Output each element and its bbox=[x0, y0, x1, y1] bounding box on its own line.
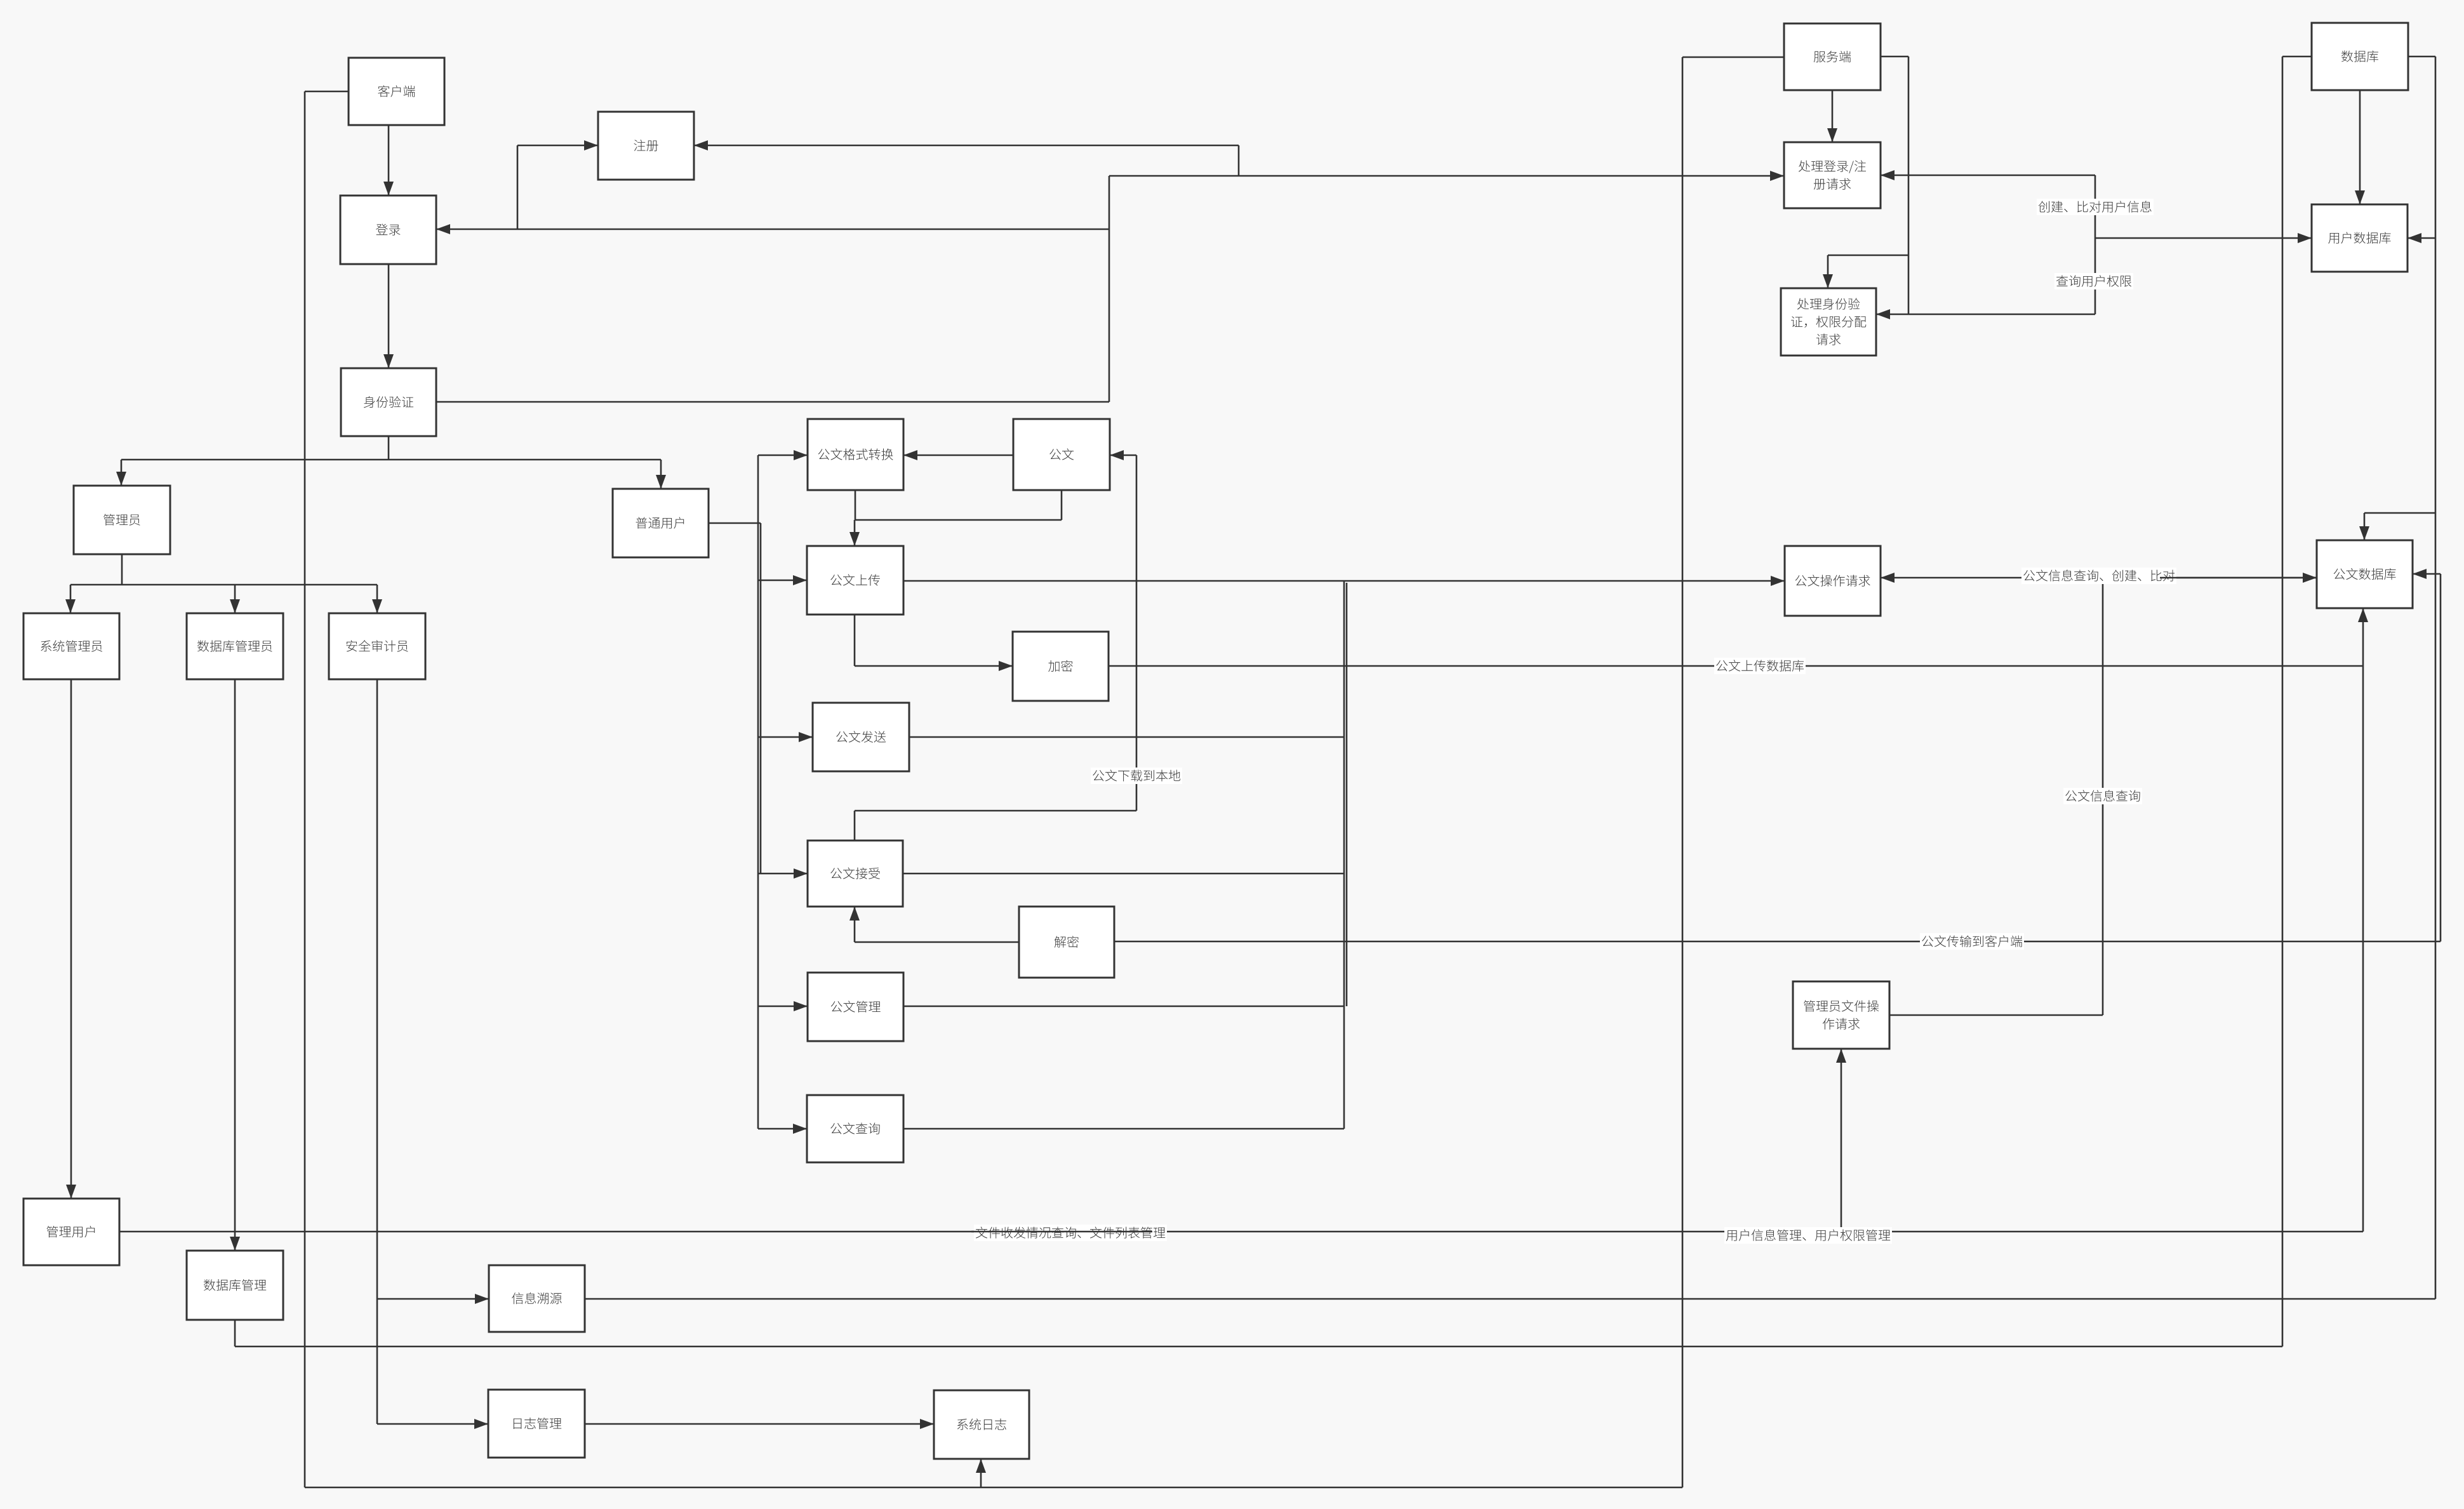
wire bbox=[1881, 577, 2317, 579]
wire bbox=[585, 1298, 2435, 1300]
wire bbox=[903, 580, 1785, 582]
wire bbox=[388, 264, 390, 368]
wire bbox=[758, 1006, 808, 1007]
wire bbox=[709, 522, 761, 524]
wire bbox=[903, 873, 1344, 875]
wire bbox=[517, 145, 598, 147]
wire bbox=[903, 1006, 1344, 1007]
wire bbox=[757, 455, 759, 1129]
node 加密 bbox=[1013, 632, 1109, 701]
node 处理身份验证，权限分配请求 bbox=[1781, 288, 1876, 356]
wire bbox=[517, 145, 519, 229]
label 创建、比对用户信息 bbox=[2037, 199, 2154, 215]
node 管理员 bbox=[74, 486, 170, 554]
wire bbox=[305, 1487, 1682, 1489]
node 用户数据库 bbox=[2312, 204, 2407, 272]
label 公文传输到客户端 bbox=[1920, 933, 2024, 950]
wire bbox=[2359, 90, 2361, 204]
wire bbox=[1682, 57, 1784, 58]
wire bbox=[1827, 255, 1829, 288]
wire bbox=[855, 941, 1019, 943]
wire bbox=[436, 401, 1109, 403]
node 管理用户 bbox=[23, 1199, 119, 1265]
wire bbox=[758, 873, 808, 875]
node 公文接受 bbox=[808, 841, 903, 907]
label 公文上传数据库 bbox=[1714, 658, 1806, 674]
label 用户信息管理、用户权限管理 bbox=[1724, 1227, 1892, 1244]
wire bbox=[855, 665, 1013, 667]
wire bbox=[304, 91, 306, 1487]
wire bbox=[980, 1459, 982, 1487]
wire bbox=[235, 1346, 2282, 1348]
wire bbox=[903, 455, 1013, 456]
wire bbox=[585, 1423, 934, 1425]
wire bbox=[1136, 455, 1138, 811]
wire bbox=[2440, 574, 2442, 941]
wire bbox=[2407, 56, 2435, 58]
wire bbox=[2362, 608, 2364, 1232]
wire bbox=[909, 736, 1344, 738]
node 公文格式转换 bbox=[808, 419, 903, 490]
label 公文信息查询、创建、比对 bbox=[2021, 568, 2176, 584]
node 管理员文件操作请求 bbox=[1793, 981, 1889, 1049]
wire bbox=[758, 455, 808, 456]
wire overlays bbox=[971, 578, 2317, 1232]
node 公文上传 bbox=[807, 546, 903, 615]
wire bbox=[388, 125, 390, 196]
wire bbox=[121, 460, 123, 486]
node 公文操作请求 bbox=[1785, 546, 1881, 616]
wire bbox=[234, 1320, 236, 1346]
node 系统管理员 bbox=[23, 613, 119, 679]
wire bbox=[1841, 1049, 1842, 1232]
node 公文数据库 bbox=[2317, 540, 2413, 608]
wire bbox=[1238, 145, 1240, 176]
label 公文信息查询 bbox=[2063, 788, 2142, 804]
node 公文 bbox=[1013, 419, 1110, 490]
wire bbox=[2282, 57, 2284, 1346]
wire bbox=[1109, 665, 2363, 667]
wire bbox=[855, 519, 1062, 521]
wire bbox=[1881, 56, 1908, 58]
wire bbox=[2364, 512, 2435, 514]
wire bbox=[1881, 175, 2095, 176]
node 客户端 bbox=[349, 58, 444, 125]
wire bbox=[903, 1128, 1344, 1130]
node 身份验证 bbox=[341, 368, 436, 436]
wire bbox=[377, 1298, 489, 1300]
wire bbox=[1908, 57, 1910, 314]
wire bbox=[854, 811, 856, 841]
node 登录 bbox=[340, 196, 436, 264]
wire bbox=[2094, 175, 2096, 314]
wire bbox=[2413, 573, 2441, 575]
node 处理登录/注册请求 bbox=[1784, 142, 1881, 208]
node 日志管理 bbox=[488, 1390, 585, 1458]
wire bbox=[854, 907, 856, 942]
wire bbox=[376, 585, 378, 613]
wire bbox=[2364, 513, 2366, 540]
node 解密 bbox=[1019, 907, 1114, 978]
wire bbox=[376, 679, 378, 1424]
wire bbox=[758, 736, 813, 738]
wire bbox=[377, 1423, 488, 1425]
wire bbox=[758, 1128, 807, 1130]
wire bbox=[2282, 56, 2312, 58]
wire bbox=[234, 585, 236, 613]
node 注册 bbox=[598, 112, 694, 180]
wire bbox=[2407, 237, 2435, 239]
node 安全审计员 bbox=[329, 613, 425, 679]
label 文件收发情况查询、文件列表管理 bbox=[974, 1225, 1167, 1241]
node 公文查询 bbox=[807, 1095, 903, 1162]
wire bbox=[2435, 57, 2437, 1299]
wire bbox=[760, 523, 762, 874]
wire bbox=[660, 460, 662, 489]
wire bbox=[1828, 255, 1908, 256]
wire bbox=[2095, 237, 2312, 239]
wire bbox=[1109, 176, 1110, 402]
wire bbox=[758, 580, 807, 582]
wire bbox=[855, 810, 1136, 812]
node 数据库 bbox=[2312, 23, 2408, 90]
wire bbox=[854, 520, 856, 546]
node 公文发送 bbox=[813, 703, 909, 771]
wire bbox=[1876, 314, 2095, 316]
wire bbox=[121, 459, 661, 461]
wire bbox=[388, 436, 390, 460]
node 数据库管理 bbox=[187, 1251, 283, 1320]
wire bbox=[694, 145, 1239, 147]
node 系统日志 bbox=[934, 1390, 1029, 1459]
wire bbox=[1346, 583, 1348, 1006]
node 数据库管理员 bbox=[187, 613, 283, 679]
wire bbox=[854, 615, 856, 666]
wire bbox=[1114, 941, 2441, 943]
wire bbox=[1061, 490, 1063, 520]
wire bbox=[436, 229, 1109, 230]
wire bbox=[234, 679, 236, 1251]
wire bbox=[1343, 581, 1345, 1129]
wire bbox=[119, 1231, 2363, 1233]
label 公文下载到本地 bbox=[1091, 768, 1182, 784]
wire bbox=[1889, 1014, 2103, 1016]
label 查询用户权限 bbox=[2054, 273, 2133, 289]
wire bbox=[1110, 455, 1136, 456]
wire bbox=[70, 584, 377, 586]
wire bbox=[1832, 90, 1834, 142]
wire bbox=[1682, 57, 1684, 1487]
node 服务端 bbox=[1784, 23, 1881, 90]
node 公文管理 bbox=[808, 973, 903, 1041]
node 普通用户 bbox=[613, 489, 709, 557]
wire bbox=[855, 490, 856, 520]
wire bbox=[70, 679, 72, 1199]
wire bbox=[2102, 578, 2104, 1015]
wire bbox=[121, 554, 123, 585]
wire bbox=[70, 585, 72, 613]
node 信息溯源 bbox=[489, 1265, 585, 1332]
wire bbox=[1109, 175, 1784, 177]
wire bbox=[305, 91, 349, 93]
